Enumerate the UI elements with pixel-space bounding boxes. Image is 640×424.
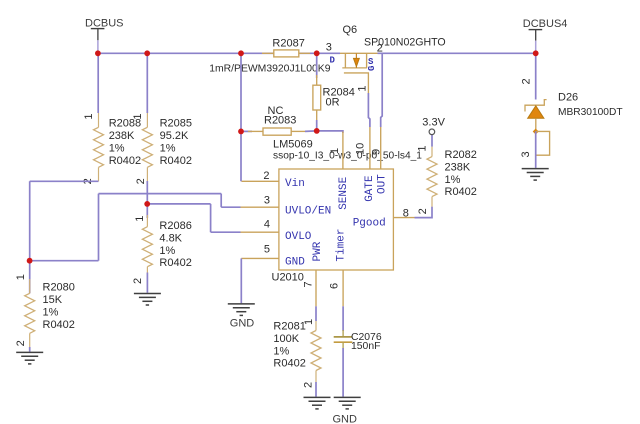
- svg-text:3.3V: 3.3V: [422, 116, 445, 128]
- wire J7 to SENSE pin: [317, 131, 343, 133]
- ground below C2076: [334, 397, 361, 409]
- svg-text:9: 9: [371, 149, 383, 155]
- svg-text:10: 10: [354, 143, 366, 155]
- power symbol DCBUS: [85, 17, 124, 40]
- resistor R2086: [132, 215, 192, 284]
- svg-text:100K: 100K: [273, 333, 299, 345]
- svg-text:R0402: R0402: [445, 186, 477, 198]
- svg-text:1: 1: [134, 216, 146, 222]
- svg-text:R0402: R0402: [159, 257, 191, 269]
- node J6 Vin/R2083: [238, 129, 244, 135]
- svg-text:0R: 0R: [326, 97, 340, 109]
- wire J9 right: [30, 260, 99, 262]
- svg-text:ssop-10_I3_0-w3_0-p0_50-ls4_1: ssop-10_I3_0-w3_0-p0_50-ls4_1: [273, 151, 422, 162]
- svg-text:1%: 1%: [273, 345, 289, 357]
- svg-text:Timer: Timer: [336, 228, 348, 261]
- svg-text:D: D: [330, 55, 336, 65]
- svg-text:G: G: [367, 66, 377, 71]
- ground below U2010 GND: [228, 304, 255, 316]
- node J2 bus/R2085: [144, 50, 150, 56]
- wire C2076 to ground: [342, 348, 344, 397]
- svg-text:1: 1: [329, 148, 341, 154]
- svg-text:2: 2: [15, 340, 27, 346]
- svg-text:GND: GND: [285, 257, 305, 269]
- svg-text:4: 4: [264, 219, 270, 231]
- svg-text:3: 3: [326, 42, 332, 54]
- wire DCBUS stub: [97, 40, 99, 53]
- wire bus segment J3 to R2087: [241, 52, 274, 54]
- wire D26 anode to ground: [535, 131, 537, 168]
- wire GND pin down: [240, 258, 242, 303]
- pin 7 PWR: [303, 241, 324, 306]
- svg-text:R0402: R0402: [273, 358, 305, 370]
- ground below D26: [522, 169, 549, 181]
- svg-text:1: 1: [132, 113, 144, 119]
- svg-text:2: 2: [377, 42, 383, 54]
- svg-text:1: 1: [83, 113, 95, 119]
- svg-text:LM5069: LM5069: [273, 139, 313, 151]
- svg-text:2: 2: [417, 208, 429, 214]
- pin 8 Pgood: [353, 208, 415, 230]
- svg-text:1: 1: [356, 85, 368, 91]
- pin 2 Vin: [241, 170, 304, 190]
- wire R2080 to ground: [29, 347, 31, 352]
- op-amp U2010 body: [272, 139, 423, 284]
- top rail: [340, 52, 378, 54]
- transistor Q6 SP010N02GHTO: [326, 24, 446, 93]
- svg-text:150nF: 150nF: [351, 341, 380, 352]
- resistor R2082: [417, 145, 477, 214]
- node J7 R2084/R2083/SENSE: [314, 128, 320, 134]
- wire R2083 to J7: [305, 130, 317, 133]
- node J1 DCBUS/R2088: [95, 50, 101, 56]
- resistor R2088: [82, 113, 141, 184]
- svg-text:R2085: R2085: [160, 118, 192, 130]
- svg-text:OUT: OUT: [376, 174, 388, 194]
- wire DCBUS4 stub: [535, 41, 537, 54]
- svg-text:1%: 1%: [160, 142, 176, 154]
- pin 6 Timer: [329, 228, 348, 306]
- svg-text:R0402: R0402: [109, 155, 141, 167]
- power symbol DCBUS4: [523, 18, 568, 41]
- svg-text:2: 2: [132, 278, 144, 284]
- wire bus segment Q6 source to J5: [378, 52, 536, 54]
- diode D26: [525, 92, 623, 129]
- node J5 bus/DCBUS4/D26: [533, 50, 539, 56]
- svg-text:1: 1: [417, 145, 429, 151]
- svg-text:1mR/PEWM3920J1L00K9: 1mR/PEWM3920J1L00K9: [209, 63, 331, 74]
- resistor R2081: [273, 319, 321, 388]
- svg-text:7: 7: [303, 281, 315, 287]
- wire J3 down to Vin pin: [240, 53, 242, 181]
- pin 9 OUT: [371, 127, 389, 194]
- svg-text:R2083: R2083: [264, 115, 296, 127]
- wire R2084 to J7: [316, 120, 318, 131]
- wire top bus segment J1-J2-J3: [98, 52, 241, 54]
- wire up: [98, 194, 100, 261]
- svg-text:D26: D26: [558, 92, 578, 104]
- svg-text:OVLO: OVLO: [285, 231, 312, 243]
- svg-text:DCBUS4: DCBUS4: [523, 18, 568, 30]
- svg-text:R2082: R2082: [445, 149, 477, 161]
- wire J4 to R2084: [316, 53, 318, 78]
- svg-text:1%: 1%: [43, 307, 59, 319]
- wire R2085 to J8: [146, 181, 148, 204]
- arrow stem: [355, 53, 357, 68]
- svg-text:238K: 238K: [109, 130, 135, 142]
- svg-text:3: 3: [520, 151, 532, 157]
- wire J6 to R2083: [241, 130, 252, 132]
- svg-text:Pgood: Pgood: [353, 218, 386, 230]
- svg-text:1: 1: [15, 274, 27, 280]
- drain leg: [344, 53, 346, 68]
- svg-text:PWR: PWR: [312, 241, 324, 261]
- svg-text:R2080: R2080: [43, 282, 75, 294]
- wire J1 down to R2088: [97, 53, 99, 113]
- wire Q6 source down to U2010 OUT pin: [381, 53, 383, 127]
- svg-text:2: 2: [521, 78, 533, 84]
- capacitor C2076: [334, 330, 382, 352]
- svg-text:MBR30100DT: MBR30100DT: [558, 107, 623, 118]
- ground below R2080: [16, 352, 43, 364]
- wire right to UVLO corner: [99, 193, 222, 195]
- wire Q6 gate to U2010 GATE pin: [368, 93, 370, 127]
- wire Timer pin down: [342, 306, 344, 331]
- wire J5 down to D26: [535, 53, 537, 99]
- svg-text:1%: 1%: [445, 174, 461, 186]
- svg-text:2: 2: [303, 382, 315, 388]
- resistor R2080: [15, 261, 75, 347]
- resistor R2087: [262, 37, 310, 57]
- svg-text:UVLO/EN: UVLO/EN: [285, 206, 331, 218]
- junction anode tie (orange dot): [533, 129, 539, 135]
- svg-text:5: 5: [264, 243, 270, 255]
- svg-text:95.2K: 95.2K: [160, 130, 189, 142]
- wire PWR pin down: [315, 306, 317, 321]
- svg-text:3: 3: [264, 195, 270, 207]
- wire anode loop: [536, 131, 550, 155]
- svg-text:15K: 15K: [43, 294, 63, 306]
- svg-text:1%: 1%: [159, 245, 175, 257]
- svg-text:Vin: Vin: [285, 178, 305, 190]
- wire bus segment R2087 to J4: [299, 52, 317, 54]
- wire corner down: [210, 204, 212, 232]
- svg-text:R2087: R2087: [272, 37, 304, 49]
- pin 3 UVLO/EN: [241, 195, 332, 218]
- pin 1 SENSE: [329, 132, 350, 210]
- svg-text:2: 2: [263, 170, 269, 182]
- svg-text:238K: 238K: [445, 161, 471, 173]
- node J8 R2085/R2086/OVLO: [144, 201, 150, 207]
- pin 5 GND: [241, 243, 305, 268]
- svg-text:8: 8: [403, 208, 409, 220]
- svg-text:6: 6: [329, 283, 341, 289]
- svg-text:4.8K: 4.8K: [159, 232, 182, 244]
- pin 4 OVLO: [241, 219, 312, 243]
- svg-text:1%: 1%: [109, 142, 125, 154]
- svg-text:R0402: R0402: [160, 155, 192, 167]
- node J4 R2087/Q6/R2084: [314, 50, 320, 56]
- svg-text:SENSE: SENSE: [338, 176, 350, 209]
- wire J8 down to R2086: [146, 204, 148, 218]
- source leg: [366, 53, 368, 68]
- wire R2088 pin2 left: [30, 180, 99, 182]
- svg-text:GND: GND: [333, 414, 358, 424]
- svg-text:U2010: U2010: [272, 271, 304, 283]
- wire J8 right: [147, 203, 210, 205]
- wire corner down: [220, 194, 222, 208]
- wire bus segment J4 to Q6 drain: [317, 52, 340, 54]
- wire down to J9: [29, 181, 31, 260]
- svg-text:R0402: R0402: [43, 319, 75, 331]
- wire to OVLO pin: [211, 231, 241, 233]
- node J9 UVLO/R2080: [27, 258, 33, 264]
- wire R2086 to ground: [146, 273, 148, 293]
- arrow head: [354, 58, 360, 66]
- svg-text:GND: GND: [230, 317, 255, 329]
- svg-text:Q6: Q6: [343, 24, 358, 36]
- wire to UVLO/EN pin: [221, 206, 240, 208]
- pin 10 GATE: [354, 127, 376, 202]
- svg-text:2: 2: [135, 178, 147, 184]
- wire Pgood to R2082: [415, 207, 433, 218]
- node J3 bus/Vin: [238, 50, 244, 56]
- svg-text:GATE: GATE: [364, 175, 376, 202]
- resistor R2084: [313, 75, 355, 120]
- svg-text:R2081: R2081: [273, 321, 305, 333]
- terminal 3.3V: [422, 116, 445, 134]
- svg-text:DCBUS: DCBUS: [85, 17, 124, 29]
- channel bar: [342, 67, 367, 69]
- wire R2081 to ground: [315, 382, 317, 397]
- wire R2082 to 3.3V terminal: [431, 135, 433, 147]
- gate plate: [344, 73, 369, 93]
- svg-text:S: S: [368, 57, 374, 67]
- svg-text:R2086: R2086: [159, 220, 191, 232]
- ground below R2086: [134, 294, 161, 306]
- resistor R2085: [132, 113, 192, 184]
- wire J2 down to R2085: [146, 53, 148, 113]
- resistor R2083 (NC): [248, 105, 305, 135]
- ground below R2081: [304, 397, 331, 409]
